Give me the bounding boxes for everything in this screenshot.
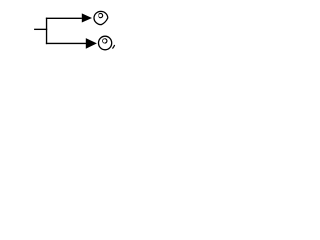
output port: top inner ring (heavier right arc) [99, 13, 103, 17]
arrowhead: top triangle [82, 13, 92, 22]
wire: bottom branch [46, 42, 86, 44]
wire: vertical bus [46, 18, 48, 45]
wire: top branch [46, 17, 82, 19]
wire: input stub [34, 28, 47, 30]
output port: bottom inner ring (heavier right arc) [105, 39, 107, 43]
output port: bottom outer ellipse [99, 36, 112, 50]
output port: top outer loop (egg shape, flattened SE) [94, 11, 108, 24]
arrowhead: bottom triangle [86, 38, 97, 49]
bottom symbol tail (short arc outside lower-right) [112, 45, 114, 49]
